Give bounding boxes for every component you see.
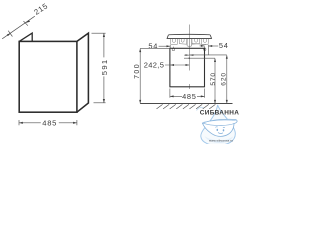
- arrowhead 485fv left: [170, 95, 174, 97]
- dimension 54 right: [209, 45, 219, 55]
- logo face eye left: [217, 129, 219, 131]
- dimension 242,5: [165, 51, 189, 70]
- arrowhead 215 lower: [7, 33, 11, 36]
- svg-text:485: 485: [42, 119, 57, 128]
- svg-text:215: 215: [32, 1, 49, 17]
- dimension 620: [189, 55, 226, 104]
- basin underside flute right outer: [203, 39, 206, 43]
- logo face eye right: [223, 129, 225, 131]
- arrowhead 620 bottom: [226, 100, 228, 104]
- cabinet left side panel top edge: [19, 33, 32, 41]
- basin underside skirt right outer: [201, 39, 208, 45]
- arrowhead 54 right inner: [201, 45, 205, 47]
- svg-text:485: 485: [182, 92, 196, 101]
- arrowhead 54 left: [167, 45, 171, 47]
- arrowhead 485 left: [19, 122, 23, 124]
- svg-text:54: 54: [219, 41, 229, 50]
- svg-text:54: 54: [148, 41, 158, 50]
- logo water drop: [201, 105, 236, 145]
- dim line 485: [19, 122, 77, 124]
- drain slope line: [192, 43, 207, 44]
- arrowhead 570 top: [214, 58, 216, 62]
- cabinet right side panel: [77, 33, 89, 112]
- logo bathtub inner rim: [202, 123, 234, 125]
- ext line left: [18, 120, 20, 125]
- fixing screw right: [203, 46, 206, 50]
- basin drain boss: [187, 39, 192, 47]
- basin underside skirt left inner: [179, 39, 187, 45]
- arrowhead 700 bottom: [139, 100, 141, 104]
- basin underside skirt right inner: [192, 39, 200, 45]
- floor line: [140, 103, 232, 105]
- dimension 54 left: [159, 45, 171, 51]
- dimension 215 (depth): [2, 16, 35, 39]
- dimension 485 (front view): [170, 89, 205, 98]
- dim line 700: [139, 49, 141, 104]
- ext line bottom: [94, 102, 106, 104]
- arrowhead 54 right: [209, 45, 213, 47]
- floor hatching: [157, 104, 216, 109]
- logo face smile: [218, 132, 223, 135]
- dim 54 right left stub: [200, 45, 205, 47]
- logo swirl accent: [197, 107, 204, 110]
- dim line 591: [103, 33, 105, 102]
- cabinet front face: [19, 41, 77, 112]
- basin underside flute right inner: [195, 39, 198, 43]
- dim line 215: [2, 16, 35, 39]
- arrowhead 591 bottom: [103, 99, 105, 103]
- basin underside skirt left outer: [170, 39, 177, 45]
- dimension 700: [140, 48, 170, 103]
- logo bathtub rim second line: [204, 120, 236, 122]
- logo drop bottom shading: [205, 136, 234, 143]
- basin underside flute left inner: [181, 39, 184, 43]
- arrowhead 242,5 left: [170, 64, 174, 66]
- fixing screw left: [172, 47, 175, 51]
- svg-text:СИБВАННА: СИБВАННА: [200, 111, 240, 117]
- svg-text:700: 700: [134, 63, 141, 79]
- washbasin rim: [167, 34, 211, 38]
- svg-text:620: 620: [221, 72, 228, 86]
- ext line cabinet top to wall: [140, 47, 170, 49]
- arrowhead 485fv right: [201, 95, 205, 97]
- extension tick 1: [8, 31, 12, 37]
- ext line top: [92, 32, 106, 34]
- svg-text:www.sibvanna.ru: www.sibvanna.ru: [209, 139, 233, 143]
- center line: [188, 25, 190, 90]
- arrowhead 591 top: [103, 33, 105, 37]
- logo face eyebrow right: [223, 126, 225, 128]
- extension tick 2: [24, 21, 28, 26]
- svg-text:242,5: 242,5: [144, 61, 165, 70]
- arrowhead 242,5 right: [186, 64, 190, 66]
- dimension 570: [184, 58, 215, 103]
- ext line right: [76, 120, 78, 125]
- cabinet front view: [170, 48, 205, 87]
- dimension 485 (width, left view): [19, 120, 77, 125]
- arrowhead 570 bottom: [214, 100, 216, 104]
- arrowhead 700 top: [139, 48, 141, 52]
- junction dot: [189, 58, 190, 59]
- arrowhead 215 upper: [25, 20, 30, 23]
- dimension 591 (height): [92, 33, 106, 103]
- svg-text:591: 591: [100, 59, 109, 76]
- logo face eyebrow left: [215, 126, 217, 129]
- center meeting arrows: [184, 54, 189, 56]
- arrowhead 620 top: [226, 55, 228, 59]
- basin underside flute left outer: [172, 39, 175, 43]
- logo bathtub body: [202, 119, 237, 136]
- svg-text:570: 570: [210, 72, 217, 86]
- arrowhead 485 right: [73, 122, 77, 124]
